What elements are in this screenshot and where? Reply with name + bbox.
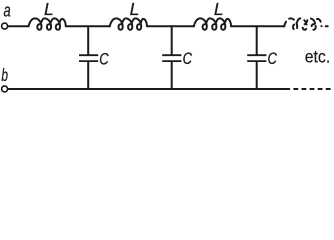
inductor L4 dashed continuation	[284, 18, 321, 29]
wire top rail segment 1	[8, 25, 29, 27]
capacitor C3 lead bottom	[256, 62, 258, 89]
capacitor C2 lead top	[171, 26, 173, 54]
svg-text:L: L	[130, 0, 140, 19]
svg-text:C: C	[99, 51, 108, 69]
svg-text:C: C	[268, 50, 277, 68]
wire top rail segment 2	[66, 25, 110, 27]
capacitor C2 plates	[162, 55, 181, 61]
wire bottom rail solid	[8, 88, 290, 90]
wire top rail segment 4	[231, 25, 284, 27]
capacitor C1 lead bottom	[87, 62, 89, 89]
capacitor C3 lead top	[256, 26, 258, 54]
svg-text:L: L	[214, 0, 224, 19]
svg-text:b: b	[1, 65, 8, 85]
wire bottom rail dashed	[293, 88, 331, 90]
svg-text:a: a	[4, 1, 11, 21]
wire dash after L4	[326, 25, 328, 27]
inductor L1	[29, 18, 66, 29]
terminal a	[2, 23, 8, 29]
svg-text:L: L	[44, 0, 54, 19]
capacitor C1 plates	[79, 55, 98, 61]
capacitor C3 plates	[247, 55, 266, 61]
capacitor C1 lead top	[87, 26, 89, 54]
inductor L2	[110, 18, 147, 29]
capacitor C2 lead bottom	[171, 62, 173, 89]
svg-text:C: C	[183, 50, 192, 68]
wire top rail segment 3	[147, 25, 194, 27]
inductor L3	[194, 18, 231, 29]
svg-text:etc.: etc.	[305, 46, 331, 66]
terminal b	[2, 86, 8, 92]
